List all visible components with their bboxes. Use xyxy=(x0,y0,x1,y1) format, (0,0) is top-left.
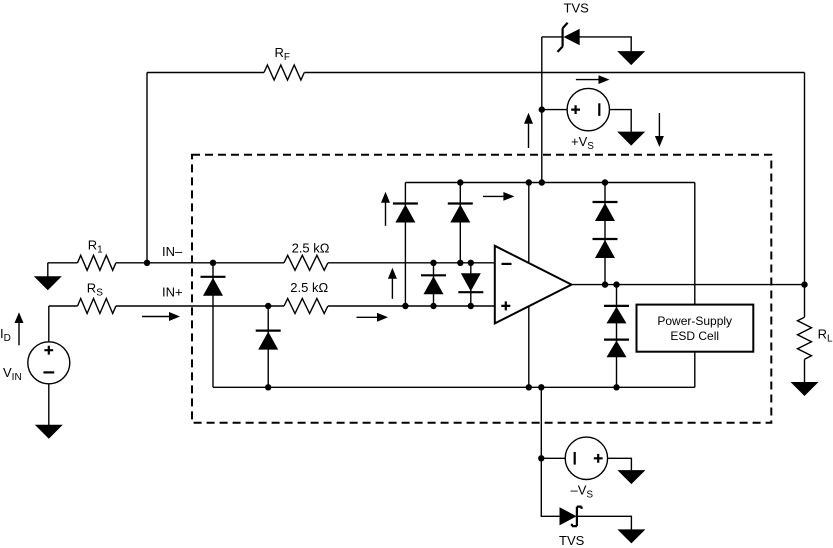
arrow right above +VS source xyxy=(576,79,600,81)
arrow up beside +VS line xyxy=(528,124,530,148)
inner bottom rail xyxy=(213,386,695,388)
wire top-left vertical from IN- node to feedback line xyxy=(146,73,148,263)
wire top feedback right segment xyxy=(304,72,804,74)
ground below VIN xyxy=(48,384,50,425)
wire +VS vertical xyxy=(541,37,543,183)
wire ESD cell bottom connection xyxy=(694,352,696,388)
ground for bottom TVS xyxy=(617,529,645,543)
arrow current into IN+ (left) xyxy=(142,316,170,318)
diode D1 (V- rail to IN-) xyxy=(212,263,214,388)
resistor R1 xyxy=(48,262,78,264)
svg-text:2.5 kΩ: 2.5 kΩ xyxy=(292,240,330,255)
wire op-amp supply vertical (hidden behind triangle) xyxy=(528,183,530,388)
wire -VS to ground xyxy=(608,458,632,470)
wire IN- from 2.5k to op-amp xyxy=(328,262,495,264)
svg-text:IN+: IN+ xyxy=(162,285,183,300)
svg-text:IN–: IN– xyxy=(162,244,183,259)
node R1/RF junction xyxy=(144,260,150,266)
wire IN+ from RS to 2.5k xyxy=(116,305,284,307)
diode D5 (IN+ to IN-) xyxy=(433,263,435,306)
resistor RS xyxy=(49,305,78,307)
arrow down right of +VS ground xyxy=(658,113,660,136)
current source -VS xyxy=(541,457,565,459)
diode D8 (V- rail to output, lower pair) xyxy=(616,285,618,388)
wire RS to VIN xyxy=(48,306,50,342)
ground below RL xyxy=(804,359,806,382)
svg-text:Power-Supply: Power-Supply xyxy=(657,314,732,328)
TVS diode top xyxy=(542,36,563,38)
ground for -VS xyxy=(617,470,645,484)
svg-text:TVS: TVS xyxy=(559,533,585,548)
wire IN+ from 2.5k to op-amp xyxy=(328,305,495,307)
wire IN- from R1 to 2.5k xyxy=(116,262,284,264)
arrow up beside D5 xyxy=(391,278,393,299)
dashed IC boundary box xyxy=(192,155,771,423)
node +VS supply junction xyxy=(539,106,545,112)
wire output xyxy=(572,284,805,286)
Power-Supply ESD Cell box xyxy=(637,305,754,352)
diode D7 (output to V+ rail, upper pair) xyxy=(604,183,606,285)
resistor RL xyxy=(804,285,806,318)
diode D6 (IN- to IN+) xyxy=(470,263,472,306)
node -VS supply junction xyxy=(538,455,544,461)
current source +VS xyxy=(542,109,567,111)
wire right vertical to output node xyxy=(804,73,806,285)
resistor 2.5k (inverting input) xyxy=(284,255,328,270)
diode D2 (V- rail to IN+) xyxy=(267,306,269,387)
svg-text:2.5 kΩ: 2.5 kΩ xyxy=(290,280,328,295)
wire ESD cell top connection xyxy=(694,183,696,305)
wire +VS to ground xyxy=(610,110,632,132)
TVS diode bottom xyxy=(560,507,577,525)
arrow up beside D3 xyxy=(385,202,387,226)
resistor RF xyxy=(264,65,304,80)
svg-text:TVS: TVS xyxy=(564,1,590,16)
ground for +VS xyxy=(617,132,645,146)
resistor 2.5k (non-inverting input) xyxy=(284,299,328,314)
wire -VS vertical xyxy=(541,387,559,516)
inner top rail xyxy=(405,182,694,184)
diode D3 (IN+ to V+ rail) xyxy=(404,183,406,307)
arrow current into IN+ (right) xyxy=(357,316,379,318)
ground for top TVS xyxy=(617,51,645,65)
op-amp U1 xyxy=(495,246,572,324)
arrow right above rail toward supply xyxy=(483,195,504,197)
wire top feedback left segment xyxy=(147,72,264,74)
source VIN xyxy=(28,342,70,384)
svg-text:ESD Cell: ESD Cell xyxy=(670,329,719,343)
ground for R1 xyxy=(47,263,49,277)
node output/D8 junction xyxy=(613,281,619,287)
node output/RL junction xyxy=(801,281,807,287)
node output/D7 junction xyxy=(602,281,608,287)
diode D4 (IN- to V+ rail) xyxy=(459,183,461,263)
